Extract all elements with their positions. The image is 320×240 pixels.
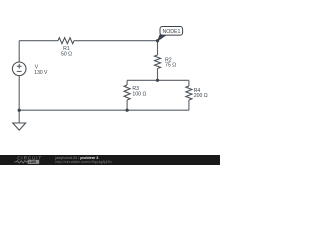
resistor R4: [188, 80, 190, 86]
wire bottom: [19, 109, 189, 111]
wire top from source to R1: [19, 40, 58, 42]
junction at R3 bottom: [126, 109, 129, 112]
resistor R1: [58, 38, 74, 44]
wire top from R1 to node1: [74, 40, 158, 42]
node NODE1 flag: [158, 35, 166, 41]
junction node NODE1: [156, 39, 159, 42]
wire V source top lead: [18, 41, 20, 62]
wire middle R3 to R4: [127, 79, 189, 81]
resistor R3: [126, 80, 128, 85]
wire V source bottom lead: [18, 76, 20, 111]
resistor R2: [157, 41, 159, 55]
junction at source bottom: [18, 109, 21, 112]
svg-text:130 V: 130 V: [34, 70, 48, 76]
svg-text:50 Ω: 50 Ω: [61, 51, 72, 57]
voltage source V 130V: [12, 62, 26, 76]
svg-text:75 Ω: 75 Ω: [165, 63, 176, 69]
svg-text:100 Ω: 100 Ω: [132, 91, 146, 97]
junction at R2 bottom: [156, 79, 159, 82]
svg-text:200 Ω: 200 Ω: [194, 93, 208, 99]
svg-text:NODE1: NODE1: [162, 29, 180, 35]
ground: [18, 110, 20, 123]
svg-text:http://circuitlab.com/c/9qy4g8: http://circuitlab.com/c/9qy4g8j42b: [55, 160, 111, 164]
watermark bar: [0, 155, 220, 165]
svg-text:LAB: LAB: [29, 160, 37, 164]
